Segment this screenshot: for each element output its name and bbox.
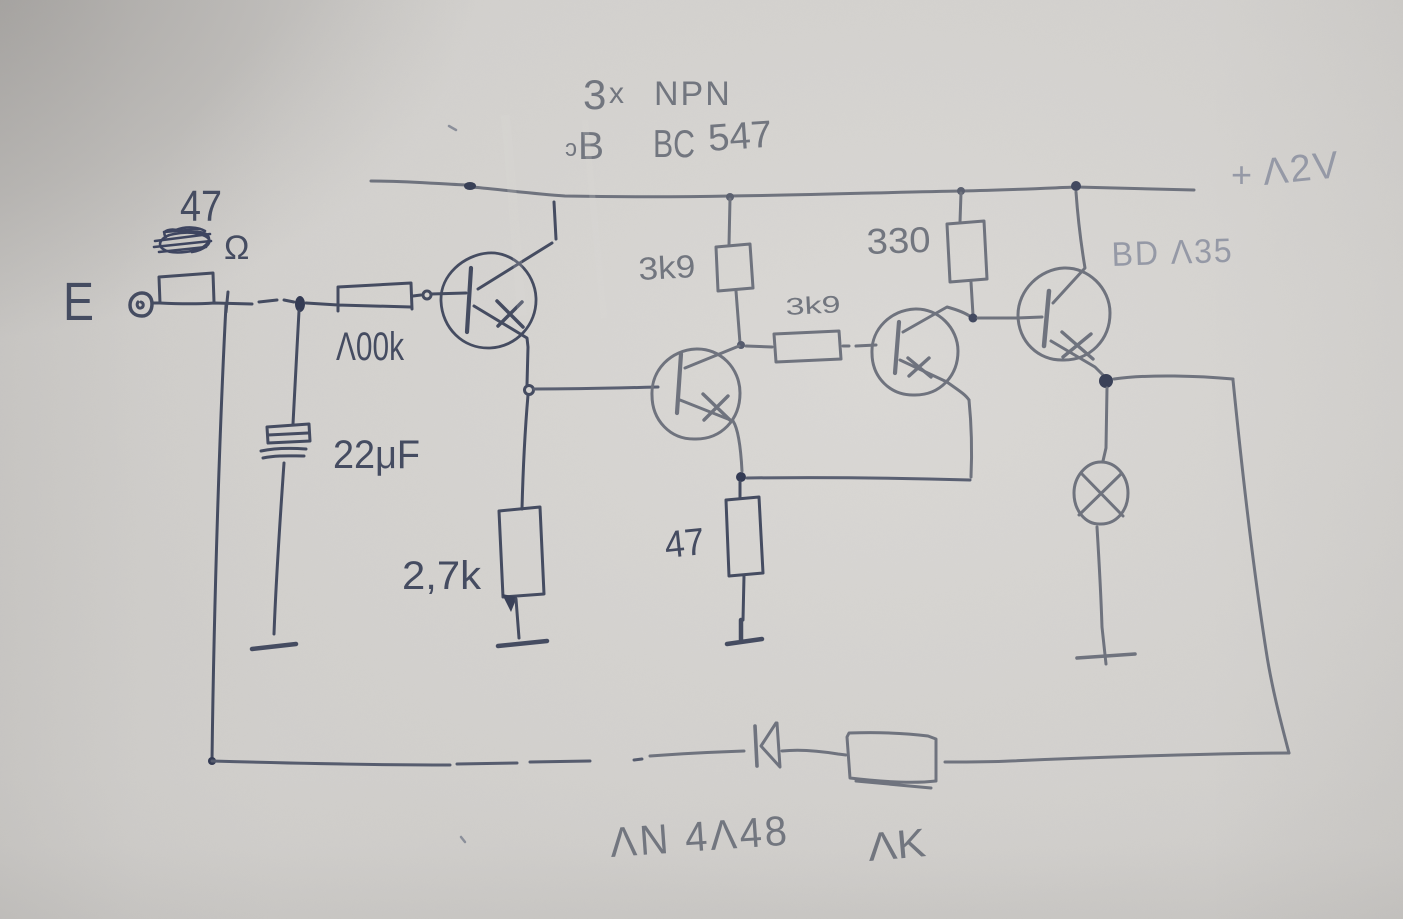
svg-text:3k9: 3k9 (785, 291, 841, 321)
svg-text:ɔ: ɔ (565, 135, 577, 162)
svg-text:NPN: NPN (654, 75, 732, 113)
svg-text:330: 330 (866, 219, 931, 262)
svg-text:2,7k: 2,7k (402, 554, 482, 598)
svg-text:BC: BC (653, 123, 695, 166)
svg-text:x: x (609, 77, 624, 110)
svg-text:47: 47 (180, 182, 222, 231)
svg-text:Λ2V: Λ2V (1261, 144, 1343, 194)
svg-text:47: 47 (663, 521, 707, 567)
svg-text:Ω: Ω (224, 229, 249, 267)
svg-text:E: E (63, 272, 94, 332)
svg-text:3k9: 3k9 (637, 248, 696, 287)
svg-text:547: 547 (707, 114, 774, 160)
svg-text:ΛK: ΛK (866, 821, 928, 870)
svg-text:Λ00k: Λ00k (336, 325, 405, 369)
svg-text:+: + (1231, 154, 1252, 195)
svg-text:22μF: 22μF (333, 433, 420, 477)
svg-text:3: 3 (583, 71, 606, 118)
svg-text:BD Λ35: BD Λ35 (1111, 232, 1234, 274)
